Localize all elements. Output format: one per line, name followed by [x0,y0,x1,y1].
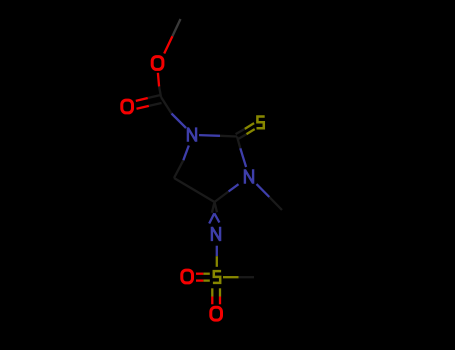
wire: N1 to C2 [199,134,220,137]
atom label: thione S [257,117,265,129]
wire: C5 to C4 [174,178,215,202]
bond: C=O double bond lower line [137,106,149,109]
bond: C4=N imine double bond right line [215,202,218,212]
wire: ester O to methyl C (oxygen half) [164,36,172,53]
bond: S=O left double bond upper line [203,273,210,275]
bond: S=O bottom double bond right line [219,288,221,296]
bond: S=O left double bond lower line [203,279,210,281]
atom label: ester O [152,57,163,70]
bond: C=O double bond upper line [136,98,148,101]
wire: imine N to sulfonyl S [216,246,218,257]
wire: N3 to C4 [229,184,239,191]
atom label: imine N [212,227,220,241]
atom label: N1 [188,127,196,141]
atom label: sulfonyl O bottom [211,307,222,320]
atom label: sulfonyl O left [182,270,193,283]
atom label: N3 [245,169,253,183]
bond: C2=S thione double bond upper line [236,129,245,134]
wire: ester O down to carbonyl C (oxygen half) [158,73,159,87]
bond: C2=S thione double bond lower line [238,134,246,139]
wire: N3 to methyl C [257,184,270,197]
wire: ester O down to carbonyl C (carbon half) [159,87,161,98]
wire: sulfonyl S to methyl C [223,276,239,278]
wire: N1 to C5 [183,146,189,161]
wire: carbonyl C to N1 [161,97,172,114]
wire: C2 to N3 [237,137,240,149]
bond: C4=N imine double bond left line [212,202,215,213]
bond: S=O bottom double bond left line [211,288,213,296]
wire: methyl C to ester O (carbon half) [172,19,180,36]
atom label: sulfonyl S [213,271,221,283]
atom label: carbonyl O [122,100,133,113]
